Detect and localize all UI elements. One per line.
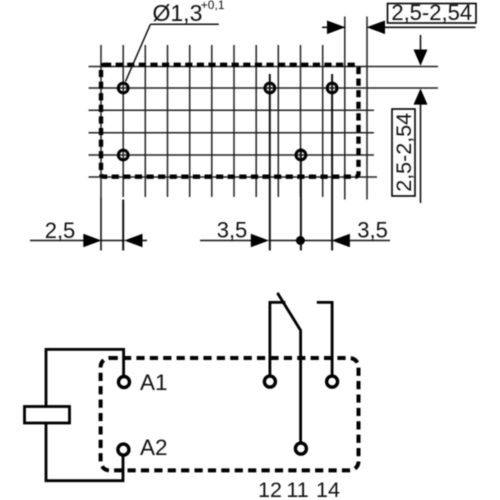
svg-text:3,5: 3,5 <box>217 218 248 243</box>
svg-text:+0,1: +0,1 <box>201 0 225 12</box>
svg-text:2,5: 2,5 <box>45 218 76 243</box>
svg-text:A1: A1 <box>140 370 168 395</box>
svg-text:12: 12 <box>258 478 282 500</box>
svg-text:3,5: 3,5 <box>357 218 388 243</box>
svg-text:14: 14 <box>316 478 340 500</box>
svg-text:A2: A2 <box>140 435 168 460</box>
svg-text:2,5-2,54: 2,5-2,54 <box>391 0 472 25</box>
svg-text:2,5-2,54: 2,5-2,54 <box>392 113 416 192</box>
svg-text:11: 11 <box>286 478 308 500</box>
svg-text:Ø1,3: Ø1,3 <box>153 0 203 26</box>
